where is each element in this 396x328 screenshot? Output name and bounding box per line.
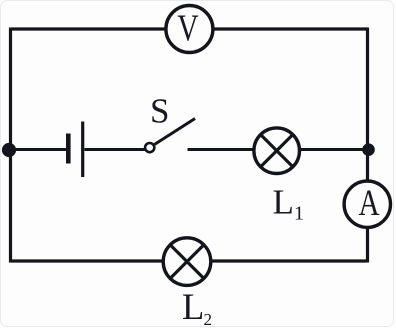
battery cell: short thick negative plate bbox=[66, 134, 71, 164]
svg-text:S: S bbox=[150, 92, 169, 131]
wire middle branch: battery to switch bbox=[85, 148, 145, 151]
junction node left (battery branch meets left wire) bbox=[2, 143, 16, 157]
svg-text:1: 1 bbox=[294, 203, 304, 225]
lamp L2: cross stroke NE-SW bbox=[170, 245, 204, 279]
junction node right (lamp branch meets right wire) bbox=[362, 143, 375, 156]
wire right vertical bbox=[366, 28, 369, 263]
lamp L1: bulb circle bbox=[254, 128, 300, 174]
wire left vertical bbox=[9, 28, 12, 263]
voltmeter V: body circle bbox=[166, 6, 213, 53]
lamp L2: cross stroke NW-SE bbox=[170, 245, 204, 279]
lamp L1: cross stroke NW-SE bbox=[260, 134, 293, 167]
wire middle branch: switch to right junction bbox=[188, 148, 369, 151]
svg-text:L: L bbox=[182, 286, 204, 327]
wire bottom bbox=[11, 259, 368, 262]
switch S: blade (open) bbox=[155, 119, 195, 145]
svg-text:V: V bbox=[177, 8, 199, 49]
lamp L2: bulb circle bbox=[163, 238, 211, 286]
wire middle branch: junction to battery bbox=[9, 148, 67, 151]
svg-text:2: 2 bbox=[204, 310, 213, 328]
wire top (node between V branch corners) bbox=[11, 27, 368, 30]
lamp L1: cross stroke NE-SW bbox=[260, 134, 293, 167]
svg-text:A: A bbox=[358, 183, 379, 224]
ammeter A: body circle bbox=[344, 181, 390, 227]
switch S: pivot circle bbox=[145, 143, 154, 152]
battery cell: long thin positive plate bbox=[81, 122, 84, 178]
svg-text:L: L bbox=[273, 183, 294, 222]
